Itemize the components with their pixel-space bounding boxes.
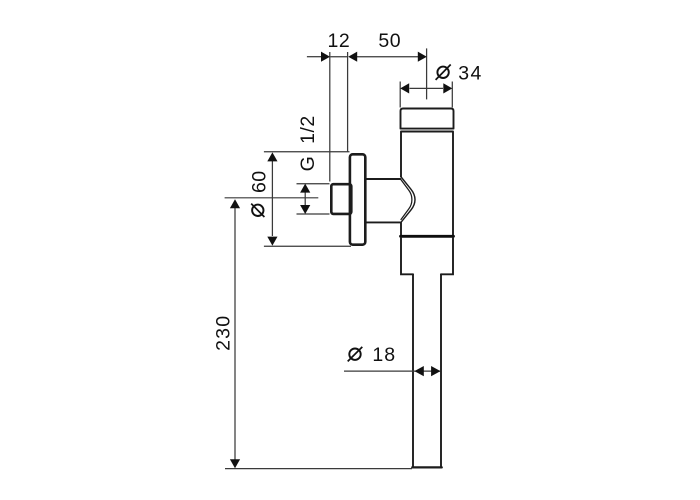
svg-text:18: 18: [372, 344, 396, 366]
svg-text:34: 34: [458, 63, 483, 85]
svg-text:230: 230: [213, 315, 235, 351]
svg-text:60: 60: [248, 170, 270, 193]
svg-text:12: 12: [328, 30, 351, 52]
svg-text:G 1/2: G 1/2: [297, 115, 319, 171]
svg-text:50: 50: [378, 30, 401, 52]
